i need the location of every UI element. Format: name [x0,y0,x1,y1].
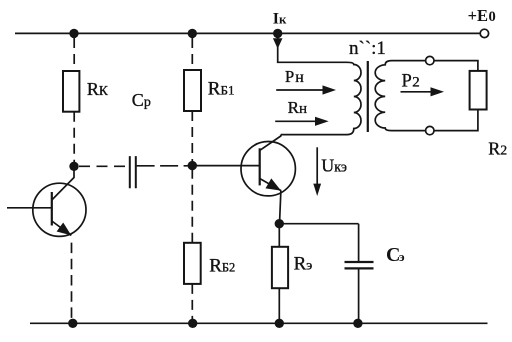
svg-text:RК: RК [87,79,109,99]
svg-text:RБ1: RБ1 [208,78,235,99]
svg-text:+E0: +E0 [468,6,496,25]
svg-text:Uкэ: Uкэ [321,155,347,175]
svg-text:Rэ: Rэ [294,254,313,275]
svg-text:Rн: Rн [288,98,307,117]
svg-text:P2: P2 [402,71,420,91]
svg-text:Рн: Рн [285,67,304,86]
svg-text:n``:1: n``:1 [349,38,386,59]
svg-text:RБ2: RБ2 [209,256,235,277]
svg-text:Cр: Cр [132,90,151,110]
svg-text:Iк: Iк [273,11,287,28]
svg-text:Сэ: Сэ [386,244,405,266]
svg-text:R2: R2 [488,138,507,158]
